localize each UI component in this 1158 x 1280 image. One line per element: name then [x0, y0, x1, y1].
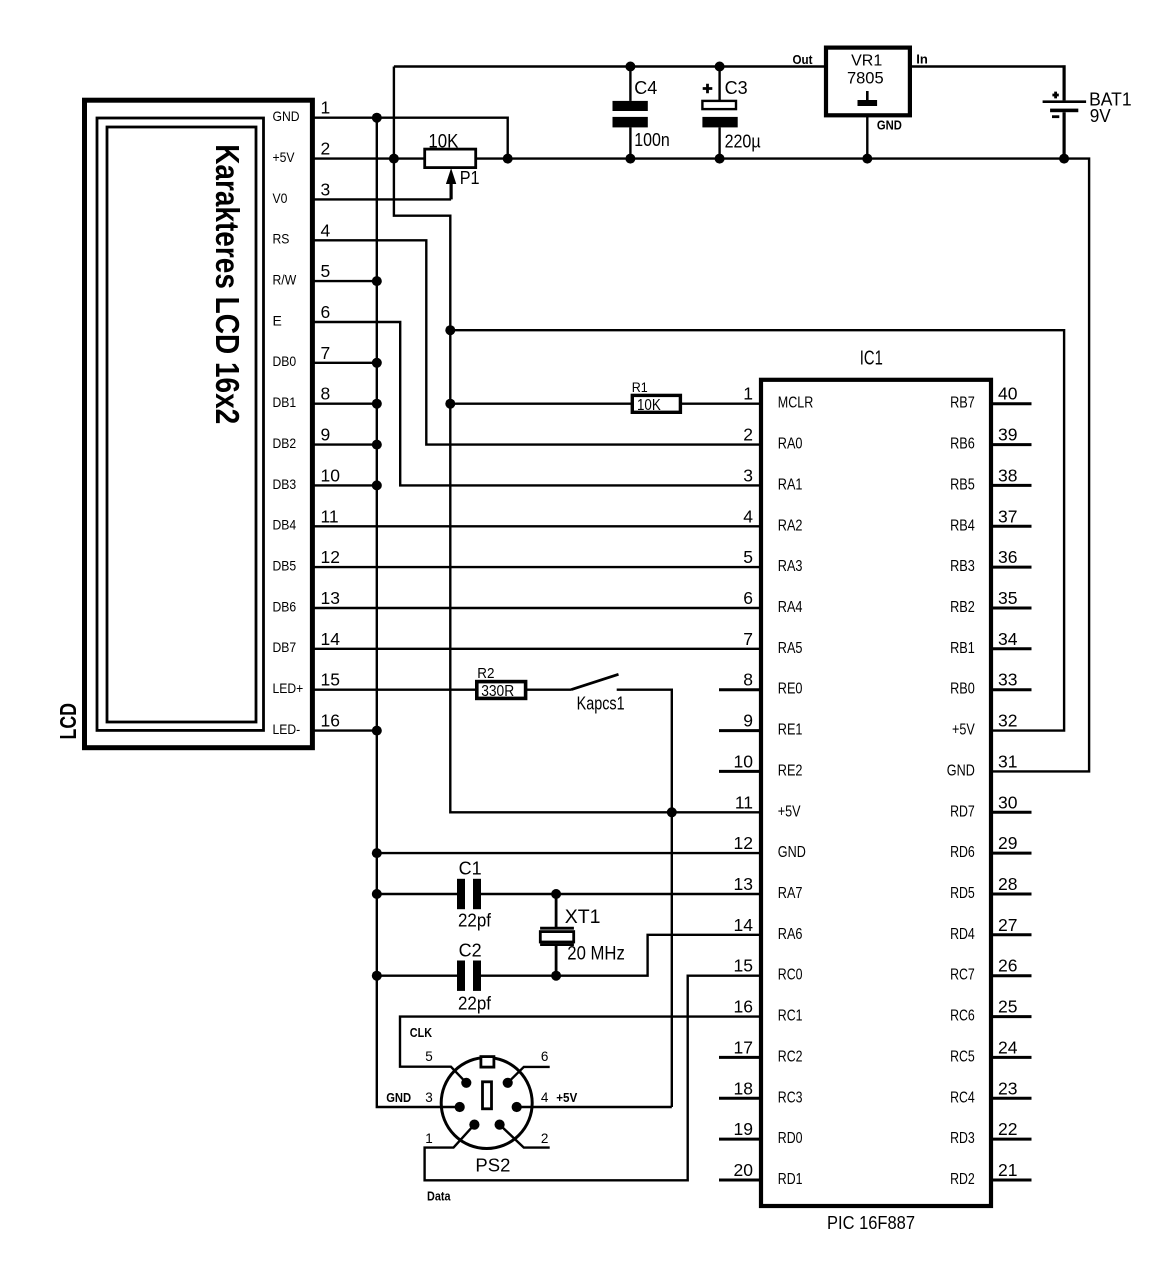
svg-text:29: 29: [998, 833, 1017, 853]
wire stub IC pin 29: [991, 852, 1032, 855]
svg-text:17: 17: [734, 1037, 753, 1057]
wire LCD pin2 +5V to pot left terminal: [312, 157, 425, 159]
svg-text:22: 22: [998, 1119, 1017, 1139]
wire LCD pin9 DB2 to GND bus: [312, 443, 376, 445]
svg-text:RB0: RB0: [950, 681, 975, 698]
PS2 pin 3 contact: [455, 1102, 465, 1112]
svg-text:RD7: RD7: [950, 803, 975, 820]
wire PS2 pin 4 to +5V: [517, 1106, 672, 1108]
wire stub IC pin 40: [991, 402, 1032, 405]
svg-text:RC4: RC4: [950, 1089, 975, 1106]
svg-text:RA4: RA4: [778, 599, 803, 616]
svg-text:+5V: +5V: [273, 149, 296, 165]
junction node battery-GND rail: [1059, 154, 1069, 164]
wire stub IC pin 39: [991, 443, 1032, 446]
svg-text:IC1: IC1: [860, 347, 883, 370]
svg-text:C4: C4: [634, 78, 657, 98]
wire stub IC pin 23: [991, 1097, 1032, 1100]
svg-text:DB2: DB2: [273, 435, 297, 451]
capacitor C2 right plate: [473, 961, 481, 991]
svg-text:GND: GND: [877, 118, 902, 133]
wire GND rail to IC pin31: [508, 159, 1089, 772]
wire C1 row RA7: [377, 893, 761, 895]
svg-text:RB7: RB7: [950, 395, 975, 412]
svg-text:PIC 16F887: PIC 16F887: [827, 1212, 915, 1233]
svg-text:26: 26: [998, 956, 1017, 976]
crystal XT1 leads: [555, 894, 558, 976]
svg-text:RB4: RB4: [950, 517, 975, 534]
svg-text:35: 35: [998, 588, 1017, 608]
junction node C3 bottom: [715, 154, 725, 164]
svg-text:6: 6: [321, 302, 331, 322]
svg-text:7805: 7805: [847, 70, 884, 88]
svg-text:9V: 9V: [1090, 105, 1112, 126]
battery BAT1 minus mark: [1052, 115, 1059, 118]
svg-text:10: 10: [321, 465, 341, 485]
svg-text:20: 20: [734, 1160, 754, 1180]
battery BAT1 positive plate: [1043, 100, 1087, 103]
svg-text:40: 40: [998, 384, 1018, 404]
svg-text:Out: Out: [793, 52, 814, 67]
wire LCD pin5 R/W to GND bus: [312, 280, 376, 282]
svg-text:DB3: DB3: [273, 476, 297, 492]
svg-text:RD5: RD5: [950, 885, 975, 902]
crystal XT1 body: [540, 932, 573, 942]
svg-text:31: 31: [998, 751, 1017, 771]
svg-text:10: 10: [734, 751, 754, 771]
LCD module U-LCD outer body: [85, 100, 313, 748]
svg-text:9: 9: [743, 711, 753, 731]
svg-text:RC5: RC5: [950, 1048, 975, 1065]
svg-text:RA2: RA2: [778, 517, 803, 534]
svg-text:39: 39: [998, 425, 1017, 445]
svg-text:RB6: RB6: [950, 436, 975, 453]
junction node C3 top: [715, 62, 725, 72]
svg-text:RE1: RE1: [778, 722, 803, 739]
svg-text:15: 15: [321, 670, 340, 690]
junction node C1-GND bus: [372, 889, 382, 899]
svg-text:RB2: RB2: [950, 599, 975, 616]
wire stub IC pin 22: [991, 1138, 1032, 1141]
PS2 pin 2 stub: [500, 1125, 550, 1148]
svg-text:18: 18: [734, 1078, 753, 1098]
svg-text:+5V: +5V: [778, 803, 801, 820]
svg-text:28: 28: [998, 874, 1017, 894]
wire stub IC pin 35: [991, 607, 1032, 610]
svg-text:GND: GND: [947, 762, 975, 779]
wire regulator GND lead: [866, 115, 868, 158]
wire LCD pin7 DB0 to GND bus: [312, 362, 376, 364]
wire +5V bus from regulator output: [394, 67, 761, 813]
svg-text:RB3: RB3: [950, 558, 975, 575]
svg-text:LED+: LED+: [273, 680, 304, 696]
battery BAT1 plus mark: [1052, 92, 1058, 99]
PS2 pin 4 contact: [512, 1102, 522, 1112]
svg-text:RB5: RB5: [950, 476, 975, 493]
svg-text:11: 11: [735, 792, 753, 812]
svg-text:RB1: RB1: [950, 640, 975, 657]
capacitor C3 plus mark: [703, 84, 713, 94]
svg-text:1: 1: [425, 1131, 433, 1146]
voltage regulator VR1 body: [826, 48, 910, 116]
svg-text:RA1: RA1: [778, 476, 803, 493]
wire stub IC pin 10: [719, 770, 761, 773]
resistor R2 body: [477, 682, 526, 699]
LCD screen inner frame A: [97, 118, 264, 730]
svg-text:DB7: DB7: [273, 639, 297, 655]
wire switch to +5V net: [617, 690, 672, 1107]
PS2 key notch: [481, 1057, 494, 1068]
svg-text:PS2: PS2: [475, 1155, 510, 1176]
capacitor C4 bottom plate: [613, 117, 648, 128]
svg-text:14: 14: [321, 629, 341, 649]
svg-text:4: 4: [541, 1090, 549, 1105]
svg-text:30: 30: [998, 792, 1018, 812]
wire C4 bottom lead: [629, 127, 631, 158]
junction node LED--GND: [372, 726, 382, 736]
wire R2 to switch: [526, 689, 571, 691]
svg-text:6: 6: [541, 1049, 549, 1064]
svg-text:27: 27: [998, 915, 1017, 935]
junction node R/W-GND: [372, 276, 382, 286]
svg-text:330R: 330R: [481, 683, 514, 700]
svg-text:C2: C2: [459, 941, 482, 961]
PS2 pin 6 contact: [503, 1078, 513, 1088]
wire stub IC pin 38: [991, 484, 1032, 487]
svg-text:8: 8: [743, 670, 753, 690]
capacitor C2 left plate: [457, 961, 465, 991]
svg-text:DB0: DB0: [273, 353, 297, 369]
wire LCD pin10 DB3 to GND bus: [312, 484, 376, 486]
svg-text:RC1: RC1: [778, 1008, 803, 1025]
wire stub IC pin 17: [719, 1056, 761, 1059]
wire LCD pin13 DB6 to IC RA4: [312, 607, 761, 609]
wire LCD pin6 E to IC RA1: [312, 322, 761, 485]
PS2 pin 1 contact: [469, 1120, 479, 1130]
capacitor C1 right plate: [473, 879, 481, 909]
svg-text:34: 34: [998, 629, 1018, 649]
svg-text:XT1: XT1: [565, 906, 601, 928]
svg-text:7: 7: [321, 343, 331, 363]
svg-text:8: 8: [321, 384, 331, 404]
svg-text:RC7: RC7: [950, 967, 975, 984]
svg-text:16: 16: [321, 711, 340, 731]
wire pot right lead: [475, 157, 508, 159]
wire LCD pin4 RS to IC RA0: [312, 240, 761, 444]
wire stub IC pin 8: [719, 688, 761, 691]
wire RC1 to PS2 clock: [400, 1017, 761, 1083]
wire LCD pin8 DB1 to GND bus: [312, 403, 376, 405]
wire C4 top lead: [629, 67, 631, 101]
wire regulator output rail: [394, 65, 826, 67]
svg-text:V0: V0: [273, 190, 288, 206]
svg-text:5: 5: [321, 261, 331, 281]
wire regulator input rail to battery: [910, 65, 1063, 68]
svg-text:P1: P1: [460, 168, 480, 188]
wire battery negative lead: [1062, 112, 1065, 158]
svg-text:LED-: LED-: [273, 721, 301, 737]
svg-text:4: 4: [321, 220, 331, 240]
svg-text:E: E: [273, 312, 282, 328]
junction node +5V to switch/PS2: [667, 807, 677, 817]
wire stub IC pin 24: [991, 1056, 1032, 1059]
wire LCD pin12 DB5 to IC RA3: [312, 566, 761, 568]
LCD screen inner frame B: [107, 127, 256, 722]
svg-text:CLK: CLK: [410, 1025, 433, 1040]
svg-text:RA6: RA6: [778, 926, 803, 943]
wire stub IC pin 9: [719, 729, 761, 732]
battery BAT1 negative plate: [1050, 109, 1078, 113]
svg-text:VR1: VR1: [851, 53, 882, 70]
PS2 pin 2 contact: [495, 1120, 505, 1130]
wire stub IC pin 28: [991, 893, 1032, 896]
svg-text:13: 13: [734, 874, 753, 894]
wire R1 right lead to IC MCLR: [680, 403, 761, 405]
PS2 pin 6 stub: [508, 1067, 550, 1083]
svg-text:33: 33: [998, 670, 1017, 690]
svg-text:DB5: DB5: [273, 558, 297, 574]
capacitor C3 bottom plate: [702, 117, 737, 128]
junction node DB3-GND: [372, 480, 382, 490]
svg-text:RD0: RD0: [778, 1130, 803, 1147]
svg-text:Data: Data: [427, 1189, 451, 1204]
svg-text:21: 21: [998, 1160, 1017, 1180]
svg-text:9: 9: [321, 425, 331, 445]
IC U1 PIC16F887 body: [761, 380, 991, 1206]
svg-text:RC6: RC6: [950, 1008, 975, 1025]
capacitor C3 positive plate (hollow): [702, 101, 736, 109]
switch Kapcs1 lever: [571, 674, 619, 689]
svg-text:DB6: DB6: [273, 598, 297, 614]
svg-text:12: 12: [321, 547, 340, 567]
svg-text:RC2: RC2: [778, 1048, 803, 1065]
wire stub IC pin 20: [719, 1179, 761, 1182]
junction node pot right / GND rail: [503, 154, 513, 164]
svg-text:RA3: RA3: [778, 558, 803, 575]
svg-text:RD1: RD1: [778, 1171, 803, 1188]
svg-text:32: 32: [998, 711, 1017, 731]
wire +5V branch to IC pin32: [450, 330, 1064, 730]
junction node DB0-GND: [372, 358, 382, 368]
wire R1 left lead: [450, 403, 632, 405]
wire LCD pin11 DB4 to IC RA2: [312, 525, 761, 527]
svg-text:R/W: R/W: [273, 272, 297, 288]
svg-text:15: 15: [734, 956, 753, 976]
wire LCD pin1 GND to pot right terminal: [312, 118, 507, 159]
svg-text:RE0: RE0: [778, 681, 803, 698]
svg-text:Karakteres LCD 16x2: Karakteres LCD 16x2: [209, 144, 246, 424]
wire stub IC pin 37: [991, 525, 1032, 528]
svg-text:RS: RS: [273, 231, 290, 247]
svg-text:3: 3: [743, 465, 753, 485]
svg-text:12: 12: [734, 833, 753, 853]
svg-text:38: 38: [998, 465, 1017, 485]
wire LCD pin14 DB7 to IC RA5: [312, 648, 761, 650]
svg-text:23: 23: [998, 1078, 1017, 1098]
junction node C4 bottom: [625, 154, 635, 164]
svg-text:20 MHz: 20 MHz: [567, 943, 625, 965]
junction node +5V branch to pin32: [445, 325, 455, 335]
svg-text:100n: 100n: [634, 130, 670, 150]
svg-text:RE2: RE2: [778, 762, 803, 779]
svg-text:RD4: RD4: [950, 926, 975, 943]
wire stub IC pin 18: [719, 1097, 761, 1100]
svg-text:C1: C1: [459, 859, 482, 879]
junction node GND-pin12: [372, 848, 382, 858]
resistor R1 body: [632, 395, 680, 412]
junction node +5V branch to R1: [445, 399, 455, 409]
svg-text:10K: 10K: [428, 131, 458, 152]
junction node C2-GND bus: [372, 971, 382, 981]
svg-text:RA5: RA5: [778, 640, 803, 657]
svg-text:22pf: 22pf: [458, 910, 492, 930]
svg-text:16: 16: [734, 997, 753, 1017]
svg-text:Kapcs1: Kapcs1: [577, 694, 625, 714]
svg-text:5: 5: [743, 547, 753, 567]
svg-text:11: 11: [321, 506, 339, 526]
wire stub IC pin 21: [991, 1179, 1032, 1182]
svg-text:R1: R1: [632, 380, 648, 395]
junction node regulator GND: [862, 154, 872, 164]
svg-text:3: 3: [321, 179, 331, 199]
regulator GND tab symbol: [866, 91, 869, 100]
svg-text:GND: GND: [273, 108, 300, 124]
svg-text:+5V: +5V: [556, 1091, 578, 1105]
svg-text:4: 4: [743, 506, 753, 526]
svg-text:3: 3: [425, 1090, 433, 1105]
wire stub IC pin 25: [991, 1015, 1032, 1018]
svg-text:GND: GND: [386, 1091, 411, 1105]
wire LCD pin16 LED- to GND bus: [312, 729, 376, 731]
svg-text:+5V: +5V: [952, 722, 975, 739]
junction node XT1 bottom: [551, 971, 561, 981]
junction node C4 top: [625, 62, 635, 72]
svg-text:RD2: RD2: [950, 1171, 975, 1188]
wire stub IC pin 34: [991, 647, 1032, 650]
svg-text:RD3: RD3: [950, 1130, 975, 1147]
svg-text:2: 2: [541, 1131, 549, 1146]
svg-text:36: 36: [998, 547, 1017, 567]
wire stub IC pin 36: [991, 566, 1032, 569]
wire C2 row to RA6: [377, 935, 761, 976]
PS2 connector body circle: [441, 1058, 532, 1149]
wire LCD pin3 V0 to pot wiper: [312, 198, 451, 200]
svg-text:LCD: LCD: [55, 703, 81, 740]
wire stub IC pin 26: [991, 974, 1032, 977]
svg-text:13: 13: [321, 588, 340, 608]
junction node GND bus top: [372, 113, 382, 123]
PS2 pin 5 contact: [461, 1078, 471, 1088]
svg-text:25: 25: [998, 997, 1017, 1017]
svg-text:24: 24: [998, 1037, 1018, 1057]
wire stub IC pin 19: [719, 1138, 761, 1141]
svg-text:In: In: [916, 52, 928, 67]
wire RC0 to PS2 data: [425, 976, 761, 1181]
svg-text:RA7: RA7: [778, 885, 803, 902]
wire stub IC pin 30: [991, 811, 1032, 814]
svg-text:37: 37: [998, 506, 1017, 526]
wire C3 bottom lead: [718, 127, 720, 158]
svg-text:10K: 10K: [637, 397, 661, 414]
svg-text:6: 6: [743, 588, 753, 608]
svg-text:5: 5: [425, 1049, 433, 1064]
svg-text:RD6: RD6: [950, 844, 975, 861]
svg-text:7: 7: [743, 629, 753, 649]
svg-text:GND: GND: [778, 844, 806, 861]
junction node XT1 top: [551, 889, 561, 899]
wire GND to IC pin12: [377, 852, 761, 854]
wire C3 top lead: [718, 67, 720, 101]
svg-text:DB1: DB1: [273, 394, 297, 410]
capacitor C1 left plate: [457, 879, 465, 909]
potentiometer P1 wiper arrow: [446, 168, 456, 184]
potentiometer P1 body: [425, 149, 476, 168]
svg-text:220µ: 220µ: [725, 132, 761, 152]
crystal XT1 plates: [540, 928, 574, 944]
svg-text:14: 14: [734, 915, 754, 935]
wire GND bus vertical: [377, 118, 460, 1107]
svg-text:RC0: RC0: [778, 967, 803, 984]
svg-text:2: 2: [321, 139, 331, 159]
svg-text:2: 2: [743, 425, 753, 445]
junction node +5V tap: [389, 154, 399, 164]
junction node DB1-GND: [372, 399, 382, 409]
junction node DB2-GND: [372, 440, 382, 450]
svg-text:1: 1: [743, 384, 753, 404]
svg-text:C3: C3: [725, 78, 748, 98]
capacitor C4 top plate: [613, 101, 648, 111]
svg-text:19: 19: [734, 1119, 753, 1139]
wire stub IC pin 27: [991, 933, 1032, 936]
svg-text:R2: R2: [477, 665, 494, 682]
wire LCD pin15 LED+ to resistor R2: [312, 689, 476, 691]
wire stub IC pin 33: [991, 688, 1032, 691]
svg-text:RC3: RC3: [778, 1089, 803, 1106]
svg-text:MCLR: MCLR: [778, 395, 814, 412]
svg-text:22pf: 22pf: [458, 993, 492, 1013]
PS2 center slot: [483, 1082, 492, 1109]
svg-text:DB4: DB4: [273, 517, 297, 533]
svg-text:RA0: RA0: [778, 436, 803, 453]
svg-text:1: 1: [321, 98, 331, 118]
